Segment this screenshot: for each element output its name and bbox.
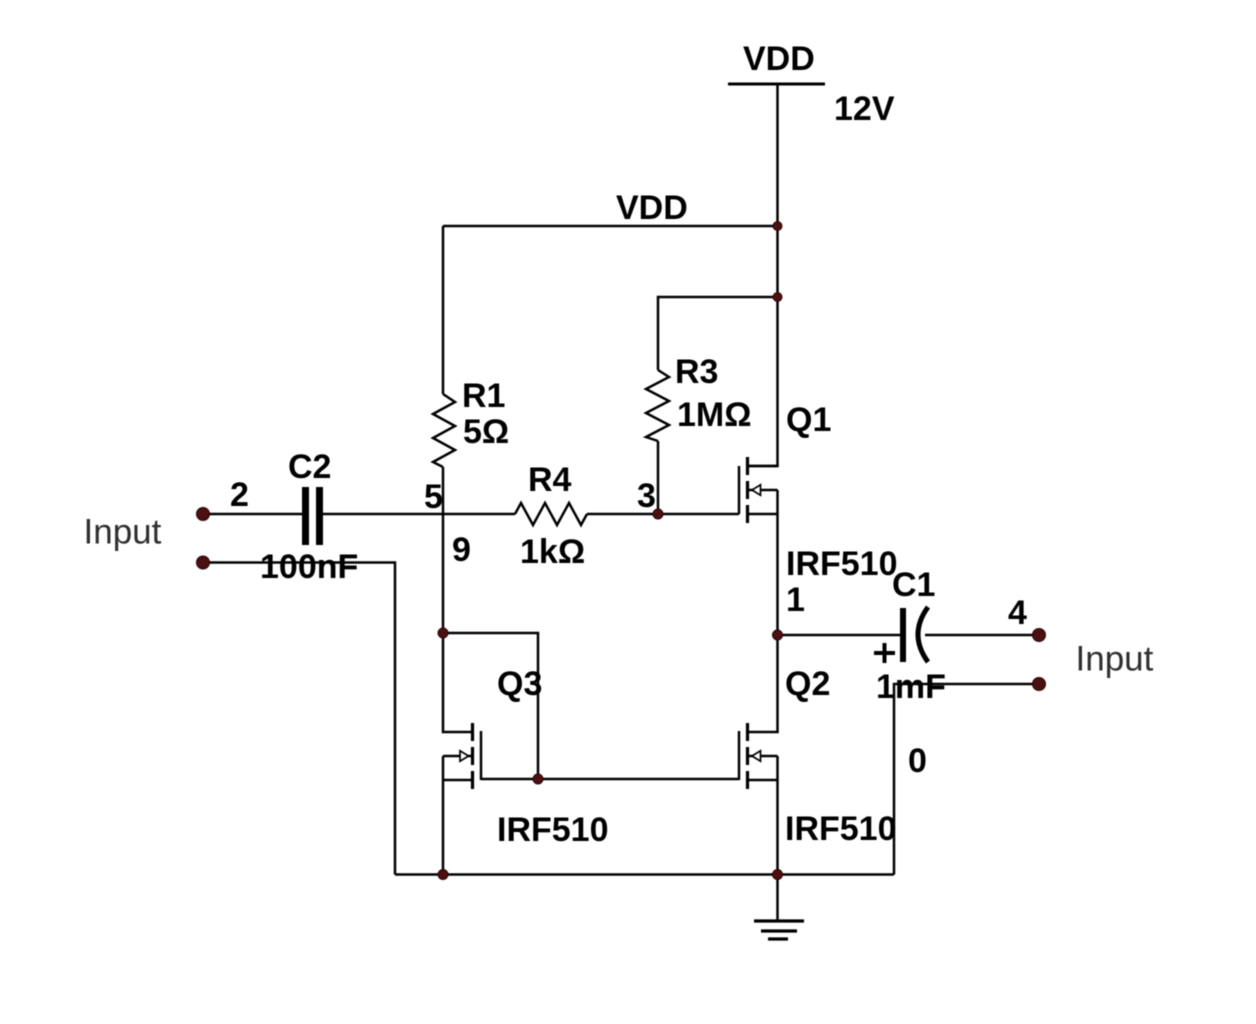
svg-text:R3: R3 [675,353,718,391]
junction R3 top [773,293,782,302]
svg-text:Q3: Q3 [497,665,542,703]
capacitor C1 plus sign [874,651,895,655]
svg-text:Q1: Q1 [786,401,831,439]
svg-text:3: 3 [637,477,656,515]
svg-text:IRF510: IRF510 [786,545,898,583]
wire C1 to output terminal 4 [925,634,1039,637]
capacitor C1 right curved plate [918,607,928,662]
wire R3 top lead [658,297,778,370]
svg-text:C1: C1 [892,566,935,604]
transistor Q1 gate bar [738,466,741,514]
transistor Q3 source lead [443,779,473,782]
transistor Q2 source lead [748,779,778,782]
junction node 1 [773,630,783,640]
junction rail left [438,870,448,880]
transistor Q2 body arrow [752,751,761,761]
resistor R1 body [433,394,455,467]
junction node 9 lower [438,628,448,638]
transistor Q2 channel ticks [746,723,749,741]
capacitor C1 left plate [900,608,906,662]
svg-text:4: 4 [1008,594,1027,632]
transistor Q2 drain lead [748,635,778,732]
transistor Q1 source lead [748,513,778,516]
junction VDD rail [773,222,782,231]
wire node 1 to C1 [778,634,901,637]
wire input upper lead [203,513,302,516]
transistor Q3 body lead [443,755,473,758]
transistor Q2 source vertical to rail [776,756,779,875]
wire R3 bottom lead to node 3 [657,441,660,514]
resistor R3 body [646,370,669,441]
svg-text:VDD: VDD [616,189,688,227]
junction Q3 gate [533,774,543,784]
junction rail ground [773,870,783,880]
wire R4 to Q1 gate [587,513,739,516]
VDD power symbol bar [728,83,825,86]
svg-text:1MΩ: 1MΩ [677,396,752,434]
svg-text:0: 0 [908,742,927,780]
capacitor C2 right plate [316,487,323,545]
svg-text:100nF: 100nF [260,548,358,586]
svg-text:5Ω: 5Ω [463,413,509,451]
svg-text:5: 5 [424,478,443,516]
ground bar 1 [754,919,804,922]
transistor Q2 gate bar [738,731,741,780]
svg-text:C2: C2 [288,448,331,486]
transistor Q1 drain lead [748,465,778,468]
svg-text:R1: R1 [462,377,505,415]
terminal input node 2 [197,508,210,521]
capacitor C2 left plate [302,487,309,545]
svg-text:Input: Input [1076,640,1154,679]
terminal input lower [197,556,210,569]
wire top horizontal VDD rail [443,225,778,228]
terminal output lower [1033,678,1046,691]
svg-text:IRF510: IRF510 [785,810,897,848]
svg-text:2: 2 [230,476,249,514]
ground bar 2 [761,929,797,932]
transistor Q3 body arrow [460,751,469,761]
svg-text:Input: Input [84,513,162,552]
resistor R4 body [515,503,587,525]
svg-text:Q2: Q2 [785,665,830,703]
wire Q3 drain to gate loop [443,633,538,779]
wire input lower lead [203,563,395,875]
transistor Q3 drain lead [443,633,473,732]
wire lower output terminal [894,684,1039,875]
transistor Q3 source vertical to rail [442,756,445,875]
wire R1 top lead [442,226,445,394]
transistor Q3 channel ticks [471,723,474,741]
transistor Q1 channel ticks [746,457,749,475]
svg-text:9: 9 [452,531,471,569]
wire R1 bottom lead to node below [442,467,445,633]
wire C2 to R4 [323,513,515,516]
transistor Q1 source vertical to node 1 [776,490,779,635]
wire gate rail Q3 to Q2 [481,778,739,781]
svg-text:12V: 12V [834,90,895,128]
junction node 3 [653,509,663,519]
transistor Q2 body lead [748,755,778,758]
wire VDD vertical to Q1 drain [747,84,778,466]
ground bar 3 [768,937,788,940]
svg-text:1kΩ: 1kΩ [520,533,585,571]
svg-text:VDD: VDD [743,40,815,78]
svg-text:1mF: 1mF [876,668,946,706]
transistor Q3 gate bar [480,731,483,780]
terminal output node 4 [1033,629,1046,642]
transistor Q1 body lead [748,489,778,492]
svg-text:R4: R4 [528,461,572,499]
ground symbol stem [776,875,779,921]
transistor Q1 body arrow [752,485,761,495]
wire bottom ground rail [395,873,894,876]
svg-text:1: 1 [786,581,805,619]
svg-text:IRF510: IRF510 [497,811,609,849]
